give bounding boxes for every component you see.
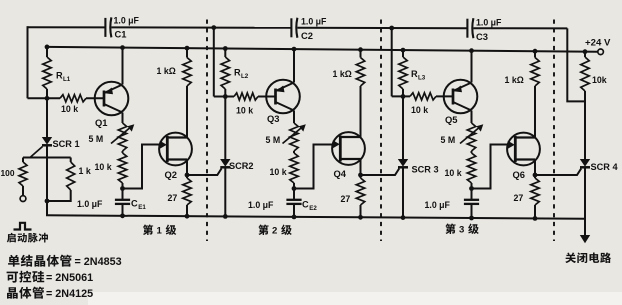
wire: B1 of Q2 down to trigger node	[186, 160, 188, 176]
wire: SCR 3 cathode down	[402, 167, 404, 217]
capacitor C1 1.0 uF (coupling)	[105, 17, 111, 37]
svg-text:E1: E1	[138, 204, 146, 211]
svg-text:3: 3	[459, 225, 464, 236]
wire: SCR1 gate lead	[30, 147, 43, 158]
resistor 10 k (base series, stage 1)	[60, 95, 86, 102]
wire: Q1 emitter to +24V rail	[122, 48, 124, 85]
wire: base line to Q3 base	[258, 96, 276, 98]
wire: SCR2 gate lead from UJT trigger node	[187, 169, 222, 176]
node: timing junction (emitter of Q6)	[469, 186, 474, 191]
wire: Q5 collector down to timing chain	[471, 111, 473, 124]
dashed boundary line: stage separator 1	[206, 20, 208, 242]
svg-text:10 k: 10 k	[236, 106, 253, 116]
svg-text:Q4: Q4	[334, 168, 347, 179]
capacitor C_E1 1.0 uF (timing)	[115, 189, 130, 216]
svg-text:SCR 3: SCR 3	[412, 165, 439, 175]
svg-text:10 k: 10 k	[445, 168, 462, 178]
svg-text:Q5: Q5	[445, 114, 458, 125]
svg-text:SCR2: SCR2	[229, 161, 254, 171]
svg-text:SCR 1: SCR 1	[53, 139, 80, 149]
node: SCR2 anode junction on stage 2 base line	[223, 94, 228, 99]
svg-text:L1: L1	[63, 76, 71, 83]
node: SCR 3 cathode on bottom rail	[401, 215, 406, 220]
label: stage 2 (Chinese)	[258, 225, 268, 235]
wire: SCR1 cathode to bottom rail	[46, 145, 48, 215]
wire: timing junction to Q4 emitter	[294, 145, 332, 189]
transistor Q1 (PNP 2N4125)	[95, 82, 129, 116]
resistor 10k (+24V to SCR4 anode)	[581, 52, 589, 159]
svg-text:5 M: 5 M	[441, 135, 456, 145]
wire: stage 3 base line	[392, 95, 410, 97]
unijunction transistor Q4 (UJT 2N4853)	[332, 132, 365, 165]
svg-text:= 2N5061: = 2N5061	[46, 272, 93, 284]
svg-text:1.0 μF: 1.0 μF	[248, 200, 274, 210]
node: Q3 emitter on rail	[292, 47, 297, 52]
svg-text:1.0 μF: 1.0 μF	[77, 199, 103, 209]
resistor R_L1 (load)	[43, 47, 51, 98]
svg-text:1 kΩ: 1 kΩ	[333, 69, 352, 79]
svg-text:= 2N4125: = 2N4125	[46, 288, 93, 300]
wire: SCR1 anode from stage 1 base line	[46, 98, 48, 137]
node: 1 kOhm top on rail (stage 3)	[533, 49, 538, 54]
node: SCR3 anode junction on stage 3 base line	[401, 94, 406, 99]
resistor R_L3 (load)	[399, 50, 407, 96]
capacitor C2 1.0 uF (coupling)	[291, 18, 297, 38]
svg-text:5 M: 5 M	[266, 135, 281, 145]
svg-text:1 kΩ: 1 kΩ	[505, 75, 524, 85]
node: timing junction (emitter of Q4)	[292, 186, 297, 191]
wire: +24 V supply rail	[47, 47, 598, 52]
svg-text:E2: E2	[309, 205, 317, 212]
node: 27 Ohm bottom on rail (stage 1)	[185, 214, 190, 219]
start pulse waveform symbol	[14, 223, 32, 230]
resistor 27 Ohm (B1 of Q6)	[531, 175, 539, 218]
svg-text:1: 1	[157, 226, 163, 237]
svg-text:27: 27	[514, 193, 524, 203]
svg-text:C3: C3	[476, 31, 488, 42]
node: 1 kOhm top on rail (stage 2)	[358, 47, 363, 52]
svg-text:C: C	[131, 199, 138, 209]
svg-text:Q6: Q6	[513, 169, 526, 180]
node: Q1 emitter on rail	[120, 45, 125, 50]
paper background: lighter bottom strip	[88, 292, 622, 305]
wire: SCR 3 anode from stage base line	[402, 97, 404, 160]
node: SCR1 cathode / 1k bottom junction	[45, 199, 50, 204]
potentiometer 5 M (timing, stage 3)	[460, 123, 483, 151]
svg-text:Q3: Q3	[267, 113, 280, 124]
node: Q5 emitter on rail	[469, 48, 474, 53]
svg-text:2: 2	[272, 226, 277, 237]
svg-text:Q1: Q1	[95, 117, 108, 128]
transistor Q5 (PNP 2N4125)	[444, 80, 478, 114]
svg-text:10 k: 10 k	[270, 167, 287, 177]
thyristor SCR 3 (2N5061)	[398, 159, 408, 167]
svg-text:L2: L2	[241, 73, 249, 80]
unijunction transistor Q2 (UJT 2N4853)	[159, 133, 192, 166]
label: start pulse (Chinese)	[7, 233, 16, 243]
resistor R_L2 (load)	[221, 49, 229, 97]
resistor 10 k (timing, stage 1)	[118, 151, 126, 189]
wire: SCR 3 gate lead from UJT trigger node	[361, 169, 400, 176]
node: 27 Ohm bottom on rail (stage 2)	[358, 215, 363, 220]
thyristor SCR 1 (2N5061)	[42, 137, 52, 145]
legend line 1: unijunction transistor = 2N4853 (Chinese)	[8, 255, 19, 267]
svg-text:SCR 4: SCR 4	[591, 162, 619, 172]
wire: Q1 collector down to timing chain	[122, 113, 124, 124]
svg-text:C: C	[302, 200, 309, 210]
svg-text:1 kΩ: 1 kΩ	[157, 66, 176, 76]
node: timing junction (emitter of Q2)	[120, 186, 125, 191]
wire: SCR 4 gate lead from UJT trigger node	[535, 169, 581, 176]
svg-text:10 k: 10 k	[61, 104, 78, 114]
svg-text:R: R	[234, 68, 241, 78]
wire: B1 of Q6 down to trigger node	[534, 160, 536, 176]
svg-text:1.0 μF: 1.0 μF	[476, 18, 502, 28]
resistor 1 kOhm (B2 load of Q6)	[531, 51, 539, 137]
node: junction of top wire and stage 2 input drop	[211, 25, 216, 30]
resistor 10 k (base series, stage 2)	[234, 93, 258, 100]
svg-text:= 2N4853: = 2N4853	[75, 256, 122, 268]
svg-text:C1: C1	[115, 29, 127, 40]
terminal: start pulse input (open circle)	[20, 196, 26, 202]
label: shutdown circuit (Chinese)	[565, 252, 576, 263]
svg-text:1.0 μF: 1.0 μF	[114, 16, 140, 26]
wire: B1 of Q4 down to trigger node	[360, 159, 362, 175]
resistor 1 k (gate to cathode)	[47, 158, 75, 202]
node: trigger junction stage 3	[533, 173, 538, 178]
node: junction of top wire and stage 3 input drop	[389, 26, 394, 31]
wire: timing junction to Q6 emitter	[472, 145, 508, 189]
svg-text:C2: C2	[301, 30, 313, 41]
wire: Q5 emitter to +24V rail	[471, 51, 473, 83]
wire: Q3 emitter to +24V rail	[293, 49, 295, 82]
node: SCR1 anode junction on stage 1 base line	[45, 96, 50, 101]
node: R_L1 top on +24V rail	[45, 45, 50, 50]
wire: trigger input node line	[23, 157, 71, 159]
wire: top coupling line C1-C2-C3	[28, 26, 105, 28]
dashed boundary line: stage separator 2	[380, 20, 382, 242]
node: SCR2 cathode on bottom rail	[223, 214, 228, 219]
wire: SCR 4 cathode down	[584, 167, 586, 235]
node: R_L3 top on +24V rail	[401, 48, 406, 53]
node: C_E1 on bottom rail	[120, 213, 125, 218]
label: stage 3 (Chinese)	[445, 224, 455, 234]
potentiometer 5 M (timing, stage 2)	[283, 123, 306, 151]
legend line 3: transistor = 2N4125 (Chinese)	[7, 287, 18, 298]
legend line 2: SCR = 2N5061 (Chinese)	[7, 272, 18, 283]
svg-text:1 k: 1 k	[79, 166, 91, 176]
wire: stage 1 base line	[28, 97, 61, 99]
resistor 10 k (base series, stage 3)	[410, 93, 436, 100]
svg-text:10 k: 10 k	[95, 162, 112, 172]
wire: SCR2 cathode down	[224, 167, 226, 216]
svg-text:27: 27	[168, 193, 178, 203]
node: C_E3 on bottom rail	[469, 216, 474, 221]
resistor 100 (start pulse input)	[19, 158, 27, 196]
resistor 27 Ohm (B1 of Q2)	[183, 175, 191, 216]
transistor Q3 (PNP 2N4125)	[266, 80, 300, 114]
capacitor C3 1.0 uF (coupling)	[467, 18, 473, 38]
wire: Q3 collector down to timing chain	[293, 111, 295, 124]
thyristor SCR2 (2N5061)	[220, 159, 230, 167]
svg-text:100: 100	[1, 168, 15, 178]
wire: base line to Q5 base	[436, 95, 453, 97]
svg-text:Q2: Q2	[165, 169, 178, 180]
svg-text:10k: 10k	[592, 75, 607, 85]
svg-text:1.0 μF: 1.0 μF	[301, 17, 327, 27]
wire: stage 2 input drop from top coupling line	[213, 28, 215, 97]
node: R_L2 top on +24V rail	[223, 46, 228, 51]
terminal: +24 V supply (open circle)	[598, 49, 604, 55]
node: trigger junction stage 1	[185, 173, 190, 178]
wire: stage 3 input drop from top coupling line	[391, 28, 393, 96]
node: 10k top on rail	[583, 49, 588, 54]
wire: bottom common rail	[46, 215, 585, 218]
svg-text:10 k: 10 k	[411, 105, 428, 115]
resistor 1 kOhm (B2 load of Q2)	[183, 48, 191, 137]
potentiometer 5 M (timing, stage 1)	[111, 123, 134, 151]
resistor 1 kOhm (B2 load of Q4)	[356, 50, 364, 137]
svg-text:1.0 μF: 1.0 μF	[425, 200, 451, 210]
wire: C3 output drop on right side to SCR4 anode	[567, 28, 585, 101]
node: C_E2 on bottom rail	[292, 215, 297, 220]
capacitor C_E3 1.0 uF (timing)	[464, 189, 479, 219]
node: trigger junction stage 2	[358, 173, 363, 178]
svg-text:R: R	[56, 71, 63, 81]
svg-text:5 M: 5 M	[89, 134, 104, 144]
resistor 10 k (timing, stage 3)	[467, 151, 475, 189]
node: 27 Ohm bottom on rail (stage 3)	[533, 216, 538, 221]
svg-text:L3: L3	[418, 75, 426, 82]
capacitor C_E2 1.0 uF (timing)	[286, 189, 301, 217]
label: stage 1 (Chinese)	[143, 225, 153, 235]
resistor 27 Ohm (B1 of Q4)	[356, 175, 364, 217]
wire: SCR2 anode from stage base line	[224, 97, 226, 160]
wire: timing junction to Q2 emitter	[123, 145, 160, 189]
wire: base line to Q1 base	[86, 97, 104, 99]
arrow: SCR4 cathode output to shutdown circuit	[580, 235, 590, 243]
dashed boundary line: stage separator 3	[553, 20, 555, 242]
wire: stage 2 base line	[214, 96, 234, 98]
svg-text:R: R	[411, 69, 418, 79]
svg-text:27: 27	[341, 194, 351, 204]
thyristor SCR 4 (2N5061)	[580, 159, 590, 167]
node: 1 kOhm top on rail (stage 1)	[185, 46, 190, 51]
unijunction transistor Q6 (UJT 2N4853)	[507, 133, 540, 166]
svg-text:+24 V: +24 V	[585, 38, 611, 49]
resistor 10 k (timing, stage 2)	[290, 151, 298, 189]
wire: feedback drop on left side to stage 1 input	[27, 26, 29, 98]
